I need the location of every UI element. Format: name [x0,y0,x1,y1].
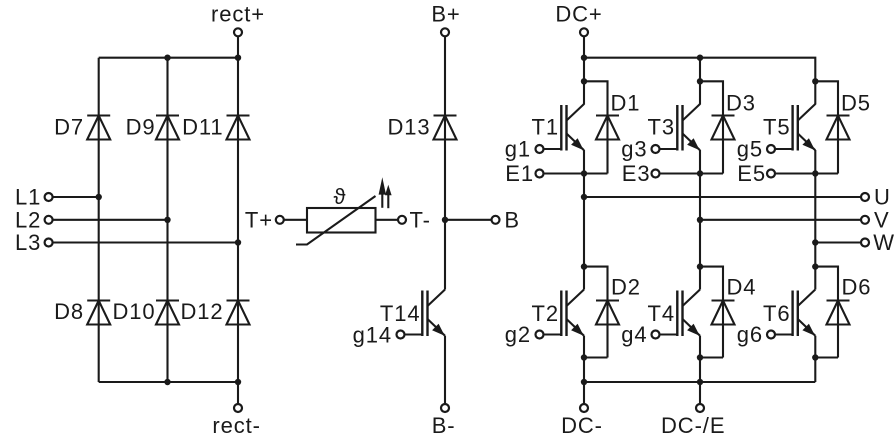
svg-text:D12: D12 [180,299,223,324]
wire DC+ bus [584,58,815,82]
terminal E1 [505,161,543,186]
svg-text:D4: D4 [727,275,757,300]
wire T+ lead [284,219,307,221]
wire D6 bottom link [815,356,838,358]
junction DC+ bus p1 [581,55,587,61]
junction W node [812,239,818,245]
diode D2 [596,301,619,325]
terminal g1 [505,137,544,162]
junction p2 collector node [697,78,703,84]
svg-text:g6: g6 [737,322,763,347]
svg-text:E5: E5 [737,161,766,186]
junction p3 emitter node [812,354,818,360]
diode D9 [156,116,179,140]
wire T6 emitter [814,336,816,382]
wire g4 lead [660,333,678,335]
svg-text:DC-: DC- [561,413,603,438]
svg-text:D1: D1 [611,91,641,116]
svg-text:D6: D6 [842,275,872,300]
svg-text:T6: T6 [763,301,790,326]
wire D4 branch [700,267,723,358]
svg-text:rect+: rect+ [211,2,265,27]
wire DC-/E lead [699,382,701,404]
svg-text:D8: D8 [54,299,84,324]
wire V rail [700,219,861,221]
transistor T6 [793,290,816,337]
wire W rail [815,241,861,243]
diode D7 [87,116,110,140]
svg-text:D3: D3 [726,91,756,116]
svg-text:T-: T- [410,208,431,233]
wire rectifier leg 3 vertical [237,58,239,382]
svg-text:D7: D7 [54,115,84,140]
diode D4 [712,301,735,325]
wire L2 [53,219,168,221]
junction L3 node [235,239,241,245]
terminal g3 [621,137,659,162]
svg-text:L3: L3 [15,230,41,255]
junction DC- bus p1 [581,379,587,385]
svg-text:rect-: rect- [212,413,261,438]
svg-text:T2: T2 [532,301,559,326]
wire T14 emitter [444,336,446,405]
wire DC+ lead [583,36,585,57]
wire U rail [584,196,861,198]
svg-text:D2: D2 [611,275,641,300]
junction p1 lower collector node [581,263,587,269]
diode D10 [156,301,179,325]
wire D2 branch [584,267,608,358]
wire T- lead [376,219,399,221]
wire B lead [445,219,492,221]
svg-text:L1: L1 [15,185,41,210]
wire p3 collector drop [814,81,816,104]
wire D2 bottom link [584,356,608,358]
wire T4 emitter [699,336,701,382]
wire T2 emitter [583,336,585,382]
transistor T1 [561,104,584,151]
wire rectifier leg 2 vertical [166,58,168,382]
wire p3 mid vertical [814,150,816,290]
wire p1 collector drop [583,58,585,105]
terminal g5 [737,137,775,162]
svg-text:ϑ: ϑ [334,184,347,209]
junction p3 collector node [812,78,818,84]
wire g5 lead [775,148,793,150]
diode D8 [87,301,110,325]
svg-text:g3: g3 [621,137,647,162]
wire E3 lead [660,172,724,174]
svg-text:L2: L2 [15,208,41,233]
junction p2 emitter node [697,354,703,360]
wire D6 branch [815,267,838,358]
diode D12 [227,301,250,325]
wire g1 lead [544,148,562,150]
wire D3 branch [700,81,723,173]
svg-text:E3: E3 [622,161,651,186]
svg-text:g14: g14 [353,323,392,348]
junction bottom bus x2 [164,379,170,385]
terminal g14 [353,323,405,348]
diode D5 [827,116,850,140]
terminal L3 [15,230,53,255]
thermistor diagonal stroke [296,196,376,245]
terminal B- [432,404,456,438]
terminal U [861,185,891,210]
terminal rect+ [211,2,265,37]
wire L1 [53,196,99,198]
wire g3 lead [660,148,678,150]
wire E5 lead [775,172,838,174]
svg-text:g4: g4 [621,322,647,347]
wire g14 lead [405,333,423,335]
svg-text:D11: D11 [182,115,223,140]
thermistor arrow 2 [385,185,392,208]
terminal L1 [15,185,53,210]
svg-text:B+: B+ [431,2,460,27]
terminal DC- [561,404,603,438]
svg-text:W: W [873,230,895,255]
junction p2 lower collector node [697,263,703,269]
svg-text:U: U [874,185,891,210]
wire D5 branch [815,81,838,173]
junction U node [581,194,587,200]
transistor T2 [561,290,584,337]
transistor T5 [793,104,816,151]
junction V node [697,217,703,223]
wire D1 branch [584,81,608,173]
svg-text:D10: D10 [112,299,155,324]
svg-text:g2: g2 [505,322,531,347]
terminal rect- [212,404,261,438]
wire DC- lead [583,382,585,404]
wire g6 lead [775,333,793,335]
terminal T- [398,208,431,233]
transistor T14 [422,290,445,337]
junction E3 node [697,170,703,176]
svg-text:g1: g1 [505,137,531,162]
svg-text:g5: g5 [737,137,763,162]
transistor T4 [677,290,700,337]
wire rectifier leg 1 vertical [98,58,100,382]
svg-text:B: B [504,208,520,233]
svg-text:B-: B- [432,413,456,438]
wire DC- bus [584,381,815,383]
svg-text:T5: T5 [763,115,790,140]
terminal E5 [737,161,775,186]
terminal g2 [505,322,544,347]
junction L2 node [164,217,170,223]
transistor T3 [677,104,700,151]
wire rect+ lead [237,36,239,57]
terminal T+ [245,208,284,233]
svg-text:T4: T4 [648,301,675,326]
terminal V [861,207,890,232]
terminal L2 [15,208,53,233]
svg-text:T+: T+ [245,208,273,233]
svg-text:T1: T1 [532,115,559,140]
wire E1 lead [544,172,608,174]
terminal E3 [622,161,660,186]
svg-text:D9: D9 [126,115,156,140]
junction bottom bus x3 [235,379,241,385]
wire p1 mid vertical [583,150,585,290]
wire g2 lead [544,333,562,335]
junction top bus x2 [164,55,170,61]
junction DC- bus p2 [697,379,703,385]
junction p1 emitter node [581,354,587,360]
junction L1 node [96,194,102,200]
svg-text:D13: D13 [387,115,430,140]
junction DC+ bus p2 [697,55,703,61]
svg-text:E1: E1 [505,161,534,186]
wire rectifier bottom bus [99,381,238,383]
diode D1 [596,116,619,140]
junction top bus x3 [235,55,241,61]
svg-text:DC+: DC+ [555,2,602,27]
svg-text:V: V [874,207,890,232]
thermistor arrow 1 [379,177,386,208]
junction E5 node [812,170,818,176]
wire L3 [53,241,238,243]
junction p1 collector node [581,78,587,84]
terminal g4 [621,322,659,347]
wire p2 mid vertical [699,150,701,290]
wire D4 bottom link [700,356,723,358]
wire B+ vertical [444,36,446,289]
junction E1 node [581,170,587,176]
diode D11 [227,116,250,140]
diode D3 [712,116,735,140]
wire rectifier top bus [99,57,238,59]
wire rect- lead [237,382,239,404]
terminal DC+ [555,2,602,37]
diode D13 [434,116,457,140]
thermistor body [307,208,376,233]
junction p3 lower collector node [812,263,818,269]
terminal DC-/E [661,404,725,438]
terminal B [492,208,520,233]
svg-text:DC-/E: DC-/E [661,413,725,438]
terminal g6 [737,322,775,347]
svg-text:T3: T3 [648,115,675,140]
junction B node [442,217,448,223]
wire p2 collector drop [699,58,701,105]
diode D6 [827,301,850,325]
terminal W [861,230,895,255]
terminal B+ [431,2,460,37]
svg-text:D5: D5 [841,91,871,116]
